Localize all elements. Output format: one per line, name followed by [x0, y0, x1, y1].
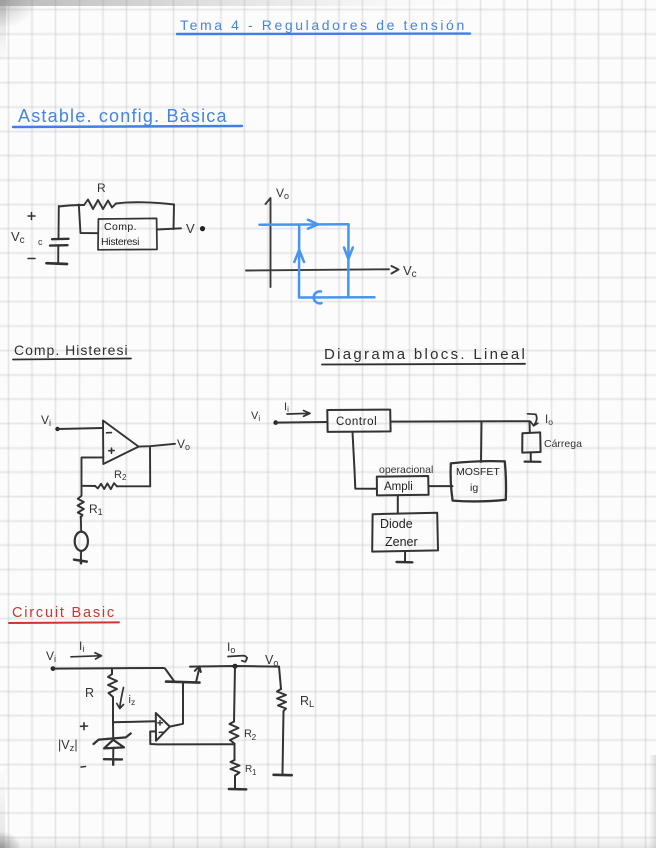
arrow Io (hook into load)	[528, 414, 538, 426]
ground (RL)	[274, 773, 292, 776]
heading underline	[13, 126, 242, 127]
svg-text:MOSFET: MOSFET	[456, 466, 500, 478]
page title: Tema 4 - Reguladores de tensión	[180, 17, 467, 33]
wire: zener node to op-amp + input	[113, 721, 156, 722]
heading: Diagrama blocs. Lineal	[324, 346, 527, 363]
wire: Vi to Control	[276, 421, 328, 424]
svg-text:Vi: Vi	[41, 413, 51, 428]
wire: Diode Zener to ground	[404, 552, 406, 562]
svg-text:Vo: Vo	[265, 653, 278, 668]
wire: Control output to load	[391, 420, 530, 422]
transistor Q1 collector diagonal with arrow	[195, 666, 201, 682]
node Vi dot (bottom)	[51, 666, 56, 671]
wire: output node down to R2	[234, 666, 235, 721]
wire: feedback from top wire down to output	[173, 205, 176, 230]
arrow iz (curved)	[117, 688, 124, 709]
arrow left on bottom segment (hook)	[314, 291, 322, 303]
label + (Vz polarity)	[81, 723, 88, 730]
ground (divider)	[229, 788, 246, 791]
wire: R to zener node	[112, 697, 114, 722]
heading: Comp. Histeresi	[14, 342, 129, 358]
voltage source (oval)	[75, 532, 88, 551]
svg-text:V: V	[186, 221, 195, 236]
wire: resistor to top-right corner	[116, 202, 174, 204]
wire: Vi to transistor emitter	[53, 667, 164, 670]
label - (Vc polarity)	[28, 258, 35, 260]
svg-text:Tema 4 - Reguladores de tensió: Tema 4 - Reguladores de tensión	[180, 17, 467, 33]
wire: Ampli down to Diode Zener	[397, 495, 399, 513]
heading underline (Circuit Basic, red)	[9, 621, 119, 624]
block: Control	[327, 410, 390, 432]
capacitor C top plate	[52, 238, 69, 241]
wire: source to ground	[80, 551, 82, 560]
wire: feedback from output down	[149, 446, 151, 486]
svg-text:c: c	[38, 237, 43, 247]
wire: Ampli to MOSFET	[429, 485, 453, 487]
svg-text:2: 2	[252, 732, 257, 742]
resistor R2 (divider zigzag)	[230, 722, 239, 744]
svg-text:Vo: Vo	[177, 437, 190, 452]
svg-text:operacional: operacional	[379, 464, 433, 476]
hysteresis loop: left vertical (rising edge)	[298, 225, 301, 298]
linear regulator block diagram	[251, 401, 582, 562]
svg-text:Vc: Vc	[403, 263, 417, 280]
transistor Q1 base bar	[166, 682, 200, 683]
op-amp - pin mark	[107, 432, 112, 434]
wire: feedback bottom right segment	[117, 485, 150, 487]
resistor RL (zigzag)	[277, 689, 286, 711]
block: Diode Zener	[372, 513, 438, 552]
wire: left branch down to capacitor	[58, 206, 60, 239]
wire: R1 to ground	[234, 776, 236, 788]
node Vi dot	[55, 427, 59, 431]
op-amp U1	[103, 421, 139, 465]
heading: Circuit Basic (red)	[12, 605, 116, 621]
ground (capacitor)	[47, 262, 68, 265]
wire: comparator output to Vo	[157, 228, 181, 229]
wire: RL to ground	[283, 711, 284, 774]
svg-text:Control: Control	[336, 416, 377, 428]
wire: op-amp output to Vo	[139, 444, 175, 447]
svg-text:|Vz|: |Vz|	[58, 738, 78, 754]
svg-text:Ampli: Ampli	[384, 481, 413, 493]
op-amp U2	[156, 713, 170, 741]
svg-text:Io: Io	[227, 640, 235, 655]
astable circuit	[11, 181, 205, 264]
svg-text:Zener: Zener	[385, 535, 418, 549]
zener diode DZ (triangle pointing up)	[104, 740, 124, 749]
svg-text:Comp. Histeresi: Comp. Histeresi	[14, 342, 129, 358]
wire: down into load box	[529, 421, 531, 433]
svg-text:Vi: Vi	[46, 649, 56, 664]
ground (zener block)	[397, 561, 413, 564]
op-amp U2 - pin mark	[159, 731, 163, 733]
svg-text:RL: RL	[300, 694, 314, 710]
svg-text:Comp.: Comp.	[104, 221, 137, 233]
wire: tap from top wire down into comparator	[79, 205, 98, 234]
block: MOSFET	[451, 461, 506, 501]
svg-text:Io: Io	[545, 414, 553, 427]
label + (Vc polarity)	[28, 213, 35, 220]
wire: R2 to left corner	[82, 485, 96, 487]
capacitor C bottom plate	[50, 244, 68, 247]
ground (zener)	[104, 759, 122, 765]
wire: zener to ground	[112, 748, 114, 757]
svg-text:R: R	[97, 181, 106, 195]
svg-text:Ii: Ii	[79, 639, 84, 654]
node output dot	[233, 664, 238, 669]
svg-text:1: 1	[252, 768, 257, 777]
ground (op-amp circuit)	[74, 560, 87, 564]
arrow down on right vertical	[344, 248, 353, 260]
wire: Vi to op-amp inverting input	[58, 428, 103, 429]
resistor R1 (divider zigzag)	[231, 760, 240, 776]
heading underline (Diagrama blocs. Lineal)	[322, 363, 525, 366]
op-amp + pin mark	[109, 448, 114, 453]
axis Vo (vertical) with arrowhead	[266, 198, 271, 287]
block: Ampli	[377, 476, 429, 495]
wire: output rail down to MOSFET	[480, 421, 483, 462]
hysteresis loop: right vertical (falling edge)	[347, 224, 350, 297]
svg-text:R: R	[85, 686, 94, 700]
node divider junction	[234, 744, 236, 760]
svg-text:R1: R1	[89, 502, 103, 517]
resistor R2 (feedback zigzag)	[95, 483, 117, 489]
wire: op-amp inverting hook to divider	[150, 731, 234, 744]
node Vi dot (blocks)	[273, 420, 278, 425]
wire: top-left segment into resistor	[59, 205, 84, 207]
wire: load to ground	[530, 452, 532, 461]
heading: Astable. config. Bàsica	[18, 106, 228, 126]
wire: R1 to source	[80, 517, 82, 532]
svg-text:Histeresi: Histeresi	[101, 236, 139, 248]
wire: output node corner down to RL	[279, 667, 281, 689]
hysteresis graph	[246, 186, 417, 287]
label - (Vz polarity)	[81, 766, 86, 769]
arrow right on top segment	[308, 220, 318, 229]
hysteresis comparator op-amp circuit	[41, 413, 190, 563]
svg-text:R2: R2	[114, 469, 127, 482]
node Vo dot	[200, 226, 205, 231]
svg-text:Ii: Ii	[284, 401, 289, 414]
axis Vc (horizontal) with arrowhead	[246, 266, 399, 274]
arrow up on left vertical	[294, 250, 304, 262]
resistor R1 (vertical zigzag)	[78, 496, 84, 518]
resistor R (zigzag vertical)	[108, 674, 117, 697]
load box (cárrega)	[522, 432, 540, 452]
hysteresis loop: bottom segment (low output)	[299, 296, 375, 299]
svg-text:Vi: Vi	[251, 410, 260, 423]
svg-text:Vc: Vc	[11, 229, 25, 246]
svg-text:Circuit Basic: Circuit Basic	[12, 605, 116, 621]
wire: junction down into R	[111, 668, 113, 674]
wire: collector to output node	[190, 665, 279, 668]
comparator box (Comp. Histeresi)	[98, 218, 157, 249]
hysteresis loop: top segment (high output)	[260, 223, 349, 226]
svg-text:iz: iz	[129, 694, 136, 707]
op-amp U2 + pin mark	[158, 721, 163, 726]
wire: Control down to Ampli	[353, 432, 377, 489]
svg-text:ig: ig	[470, 482, 478, 494]
svg-text:Diode: Diode	[380, 517, 413, 531]
svg-text:Cárrega: Cárrega	[544, 438, 582, 450]
wire: op-amp output to transistor base	[170, 683, 183, 727]
svg-text:Diagrama blocs. Lineal: Diagrama blocs. Lineal	[324, 346, 527, 363]
page title underline	[177, 32, 470, 35]
wire: capacitor to ground	[57, 246, 59, 263]
transistor Q1 emitter diagonal	[165, 669, 174, 682]
wire: op-amp + input to left then down	[82, 457, 104, 495]
series regulator circuit	[46, 639, 314, 789]
svg-text:Astable. config. Bàsica: Astable. config. Bàsica	[18, 106, 228, 126]
resistor R (zigzag)	[84, 200, 116, 210]
zener diode DZ cathode bar with wings	[94, 733, 131, 744]
wire: node down to zener diode	[112, 722, 114, 737]
svg-text:Vo: Vo	[276, 186, 289, 201]
heading underline (Comp. Histeresi)	[13, 359, 131, 360]
ground (load)	[525, 461, 541, 463]
